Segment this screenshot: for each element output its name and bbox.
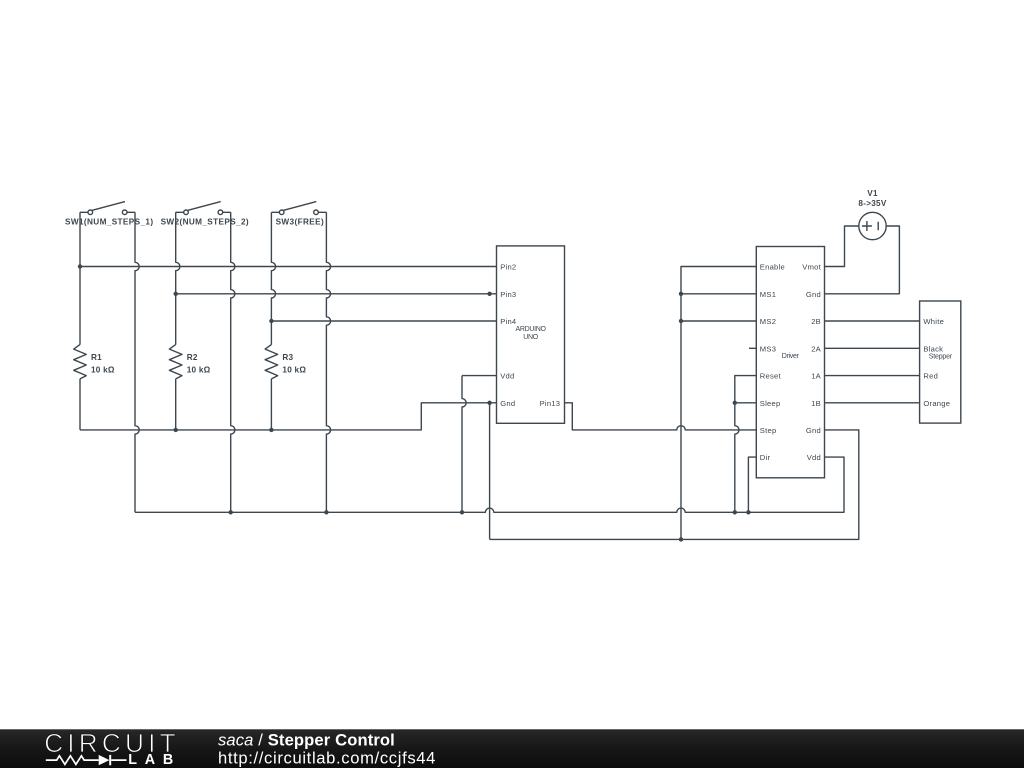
- svg-text:Red: Red: [923, 372, 938, 381]
- svg-text:10 kΩ: 10 kΩ: [187, 365, 211, 374]
- wire SW1 terminal stubs: [80, 211, 135, 213]
- footer url: [218, 748, 436, 767]
- resistor R1 10k: [74, 345, 115, 379]
- arduino UNO block: [497, 246, 565, 423]
- svg-text:Gnd: Gnd: [806, 290, 821, 299]
- node R2-GND junction: [174, 428, 178, 432]
- node Arduino Gnd junction: [487, 401, 491, 405]
- node SW3-VDD junction: [324, 510, 328, 514]
- svg-text:ARDUINO: ARDUINO: [516, 326, 547, 333]
- wire 2B to White: [825, 320, 920, 322]
- svg-text:Sleep: Sleep: [760, 399, 781, 408]
- svg-text:SW3(FREE): SW3(FREE): [276, 218, 324, 227]
- svg-text:LAB: LAB: [128, 752, 181, 768]
- switch SW1 (NUM_STEPS_1): [65, 202, 153, 227]
- wire GND bus to Arduino Gnd: [80, 403, 497, 430]
- svg-text:1B: 1B: [811, 399, 821, 408]
- wire Dir to VDD bus: [748, 457, 756, 512]
- wire GND2 bus: [490, 430, 859, 540]
- resistor R3 10k: [265, 345, 306, 379]
- node Dir-VDD junction: [746, 510, 750, 514]
- svg-text:saca / Stepper Control: saca / Stepper Control: [218, 730, 395, 749]
- wire MS2 row: [681, 320, 756, 322]
- node R3-GND junction: [269, 428, 273, 432]
- svg-text:10 kΩ: 10 kΩ: [91, 365, 115, 374]
- wire VDD bus: [135, 457, 844, 512]
- wire Pin2 row: [80, 266, 497, 268]
- wire 2A to Black: [825, 347, 920, 349]
- svg-text:Orange: Orange: [923, 399, 950, 408]
- wire V1 positive lead to Vmot: [825, 226, 859, 267]
- svg-text:UNO: UNO: [523, 334, 539, 341]
- svg-text:Vdd: Vdd: [807, 453, 821, 462]
- wire SW1 left vertical (to R1): [79, 212, 81, 430]
- wire Pin13 to Step: [565, 403, 757, 430]
- wire MS1 row: [681, 293, 756, 295]
- node Enable-MS1 junction: [679, 292, 683, 296]
- svg-text:MS2: MS2: [760, 317, 776, 326]
- node SW2-VDD junction: [229, 510, 233, 514]
- switch SW3 (FREE): [276, 202, 324, 227]
- svg-text:Black: Black: [923, 344, 943, 353]
- svg-text:V1: V1: [867, 189, 878, 198]
- svg-text:Pin13: Pin13: [540, 399, 561, 408]
- wire SW1 right vertical: [135, 212, 139, 512]
- stepper motor block: [920, 301, 961, 423]
- svg-text:R3: R3: [282, 353, 293, 362]
- wire Reset-Sleep vertical: [735, 376, 757, 513]
- node Reset-VDD junction: [733, 510, 737, 514]
- svg-text:2A: 2A: [811, 344, 821, 353]
- wire Sleep row: [735, 402, 757, 404]
- pin MS3 stub: [749, 347, 756, 349]
- svg-text:http://circuitlab.com/ccjfs44: http://circuitlab.com/ccjfs44: [218, 748, 436, 767]
- svg-text:2B: 2B: [811, 317, 821, 326]
- wire SW3 left vertical (to R3): [271, 212, 275, 430]
- node Reset-Sleep junction: [733, 401, 737, 405]
- switch SW2 (NUM_STEPS_2): [161, 202, 249, 227]
- wire Pin4 row: [271, 320, 496, 322]
- svg-text:Gnd: Gnd: [806, 426, 821, 435]
- wire Arduino Gnd to GND2 bus: [489, 403, 491, 540]
- footer title: [218, 730, 395, 749]
- wire 1B to Orange: [825, 402, 920, 404]
- svg-text:Gnd: Gnd: [500, 399, 515, 408]
- svg-text:Vmot: Vmot: [802, 263, 821, 272]
- svg-text:10 kΩ: 10 kΩ: [282, 365, 306, 374]
- node Enable-MS2 junction: [679, 319, 683, 323]
- node SW1-Pin2 junction: [78, 264, 82, 268]
- voltage source V1 8->35V: [858, 189, 886, 240]
- wire Enable-MS1-MS2 vertical: [681, 267, 756, 540]
- svg-text:MS3: MS3: [760, 344, 776, 353]
- svg-text:SW2(NUM_STEPS_2): SW2(NUM_STEPS_2): [161, 218, 249, 227]
- svg-text:Pin2: Pin2: [500, 263, 516, 272]
- svg-text:White: White: [923, 317, 944, 326]
- wire SW2 right vertical: [231, 212, 235, 512]
- svg-text:Step: Step: [760, 426, 777, 435]
- node Enable-GND2 junction: [679, 537, 683, 541]
- wire V1 negative lead to Gnd: [825, 226, 900, 294]
- CircuitLab logo: [44, 728, 181, 768]
- wire SW2 terminal stubs: [176, 211, 231, 213]
- svg-text:Driver: Driver: [782, 353, 800, 360]
- footer bar: [0, 729, 1024, 768]
- node Vdd-VDDbus junction: [460, 510, 464, 514]
- node SW2-Pin3 junction: [174, 292, 178, 296]
- resistor R2 10k: [169, 345, 210, 379]
- svg-text:R2: R2: [187, 353, 198, 362]
- wire Arduino Vdd to VDD bus: [462, 376, 497, 513]
- node Pin3 terminal junction: [487, 292, 491, 296]
- svg-text:MS1: MS1: [760, 290, 776, 299]
- svg-text:Dir: Dir: [760, 453, 771, 462]
- wire SW3 right vertical: [326, 212, 330, 512]
- svg-text:1A: 1A: [811, 372, 821, 381]
- svg-text:Enable: Enable: [760, 263, 785, 272]
- wire Pin3 row: [176, 293, 497, 295]
- svg-text:Pin4: Pin4: [500, 317, 516, 326]
- wire SW2 left vertical (to R2): [176, 212, 180, 430]
- svg-text:8->35V: 8->35V: [858, 199, 886, 208]
- wire 1A to Red: [825, 375, 920, 377]
- svg-text:Vdd: Vdd: [500, 372, 514, 381]
- svg-text:SW1(NUM_STEPS_1): SW1(NUM_STEPS_1): [65, 218, 153, 227]
- wire SW3 terminal stubs: [271, 211, 326, 213]
- svg-text:Reset: Reset: [760, 372, 782, 381]
- node SW3-Pin4 junction: [269, 319, 273, 323]
- svg-text:Pin3: Pin3: [500, 290, 516, 299]
- driver block: [756, 247, 824, 478]
- svg-text:R1: R1: [91, 353, 102, 362]
- svg-text:Stepper: Stepper: [929, 354, 953, 361]
